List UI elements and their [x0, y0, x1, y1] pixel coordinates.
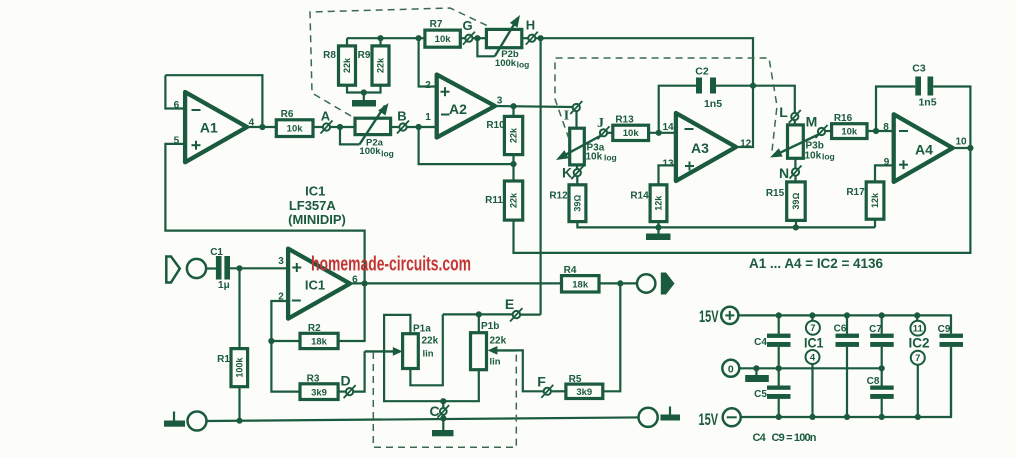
text 0 terminal	[722, 360, 739, 377]
text IC1 LF357A MINIDIP	[288, 184, 346, 228]
svg-text:1n5: 1n5	[704, 98, 722, 110]
wire R16 to A4 pin8	[867, 130, 894, 132]
svg-text:log: log	[604, 152, 617, 162]
supply bottom rail	[741, 347, 951, 417]
potentiometer P1a	[403, 324, 439, 369]
op-amp A4	[883, 114, 967, 182]
svg-text:100k: 100k	[234, 357, 244, 378]
potentiometer P2b	[486, 15, 529, 70]
junction dot right of G	[474, 35, 480, 41]
node J	[597, 116, 610, 139]
svg-text:log: log	[381, 149, 394, 159]
wire C to ground rail	[442, 415, 444, 419]
svg-text:(MINIDIP): (MINIDIP)	[288, 212, 346, 227]
IC2 supply pin 11	[910, 315, 925, 335]
wire input to C1	[206, 267, 216, 269]
capacitor C9	[938, 324, 963, 417]
node B	[397, 109, 409, 134]
node M	[806, 114, 828, 139]
wire R10 to R11	[512, 155, 514, 181]
junction dot C node	[440, 398, 446, 404]
wire P2b to H	[522, 37, 528, 39]
resistor R5	[566, 374, 603, 399]
svg-text:15V: 15V	[699, 410, 719, 429]
svg-text:1n5: 1n5	[918, 97, 936, 109]
wire R17 bottom to mid rail	[874, 219, 876, 227]
svg-text:C3: C3	[912, 63, 926, 75]
svg-text:12k: 12k	[654, 195, 664, 211]
wire L to P3b	[794, 120, 796, 125]
svg-text:C5: C5	[754, 389, 767, 400]
junction dot R8 R9 ground stub	[361, 89, 367, 95]
junction dot A3 feedback node	[750, 83, 756, 89]
svg-text:R13: R13	[615, 115, 634, 126]
wire A2 output to I	[495, 106, 573, 107]
svg-text:3k9: 3k9	[576, 387, 592, 398]
node N	[779, 165, 802, 181]
wire H junction long vertical down to E	[539, 38, 541, 315]
svg-text:10k: 10k	[623, 128, 640, 139]
output terminal circle	[637, 274, 655, 292]
svg-text:22k: 22k	[509, 192, 519, 208]
minus supply terminal	[723, 408, 741, 426]
svg-text:R5: R5	[569, 374, 582, 385]
wire P1b bottom loop to C node	[443, 370, 479, 402]
junction dot top rail at R9	[377, 35, 383, 41]
wire P1b wiper to F	[516, 350, 544, 391]
svg-text:R14: R14	[630, 191, 649, 202]
wire A3 output	[736, 86, 753, 147]
node K	[562, 165, 583, 181]
wire A1 pin6 stub	[165, 75, 185, 108]
svg-text:4: 4	[810, 353, 816, 364]
svg-text:R1: R1	[217, 354, 230, 365]
wire IC1 pin2 loop to R2 R3	[271, 301, 300, 392]
svg-text:L: L	[779, 104, 788, 120]
resistor R1	[217, 349, 247, 387]
svg-text:IC1: IC1	[305, 184, 325, 199]
svg-text:C1: C1	[210, 247, 223, 258]
wire P1b top stub	[478, 314, 480, 332]
wire P2b wiper bypass	[477, 38, 494, 56]
junction dot A4 output	[967, 145, 973, 151]
junction dot R4 right	[617, 280, 623, 286]
resistor R15	[766, 182, 805, 221]
wire R14 bottom to mid rail	[657, 222, 659, 228]
plus supply terminal	[721, 307, 738, 324]
svg-text:R17: R17	[846, 187, 865, 198]
node F	[537, 374, 553, 398]
ground symbol bottom right	[661, 407, 681, 421]
wire A2 pin2 to top rail	[419, 38, 437, 86]
svg-text:12k: 12k	[870, 192, 880, 208]
wire C4 to 0 rail	[778, 347, 780, 368]
wire R8 R9 bottoms joined	[347, 85, 381, 92]
dashed gang link P1a P1b	[373, 352, 516, 447]
potentiometer P3b	[770, 125, 835, 162]
capacitor C7	[869, 315, 894, 368]
junction dot left of P2a	[337, 124, 343, 130]
svg-text:R11: R11	[485, 195, 503, 206]
op-amp A1	[174, 92, 255, 162]
wire P2a wiper bypass	[340, 127, 360, 144]
wire J to R13	[607, 132, 613, 134]
wire P2a to B	[391, 126, 400, 128]
0 rail	[739, 367, 881, 369]
resistor R4	[562, 265, 600, 292]
wire R7 to G	[460, 37, 465, 39]
node C	[429, 401, 449, 419]
resistor R17	[846, 182, 884, 219]
svg-text:R7: R7	[430, 19, 443, 30]
wire P1a top loop to C node	[384, 315, 443, 401]
svg-text:39Ω: 39Ω	[791, 193, 801, 210]
node H	[526, 18, 538, 45]
resistor R16	[832, 113, 867, 139]
svg-text:R16: R16	[834, 113, 853, 124]
P1b wiper arrow	[488, 346, 516, 355]
svg-text:8: 8	[883, 122, 889, 133]
capacitor C5	[754, 368, 790, 417]
svg-text:10k: 10k	[287, 124, 304, 135]
wire R3 to D	[338, 391, 346, 393]
svg-text:100k: 100k	[495, 58, 517, 69]
capacitor C8	[867, 368, 894, 417]
svg-text:R8: R8	[323, 50, 336, 61]
supply top rail	[738, 315, 951, 333]
svg-text:C7: C7	[869, 324, 882, 335]
svg-text:10: 10	[955, 137, 967, 148]
dashed gang link P3a P3b	[555, 58, 777, 151]
wire A1 feedback top	[165, 75, 262, 127]
svg-text:C4: C4	[754, 337, 767, 348]
wire F to R5	[551, 390, 566, 392]
P1a wiper arrow	[365, 347, 403, 356]
svg-text:A3: A3	[691, 140, 709, 156]
svg-text:A1: A1	[200, 120, 218, 136]
svg-text:22k: 22k	[342, 57, 352, 73]
svg-text:7: 7	[810, 323, 815, 334]
input terminal circle	[187, 259, 206, 278]
wire A4 pin9 to R17	[875, 165, 894, 182]
wire B to A2 pin1	[407, 126, 437, 128]
resistor R14	[630, 185, 667, 222]
svg-text:homemade-circuits.com: homemade-circuits.com	[311, 254, 471, 276]
svg-text:A1 ... A4 = IC2 = 4136: A1 ... A4 = IC2 = 4136	[749, 256, 883, 271]
wire R5 right up to output wire	[603, 283, 621, 391]
junction dot 0 rail ground	[753, 365, 759, 371]
wire A3 pin13 to R14	[659, 165, 676, 184]
wire R13 to A3 pin14	[649, 132, 676, 134]
node E	[505, 296, 523, 322]
ground terminal circle bottom right	[639, 408, 658, 427]
junction dot R2 left	[268, 338, 274, 344]
svg-text:lin: lin	[423, 349, 434, 360]
wire D up to P1a wiper	[353, 351, 364, 391]
svg-text:3k9: 3k9	[311, 387, 327, 398]
IC1 supply pin 7	[806, 315, 820, 334]
op-amp A2	[425, 75, 503, 138]
wire A4 output	[953, 147, 971, 149]
resistor R11	[485, 181, 523, 220]
wire H to top rail right end	[535, 38, 753, 86]
wire to R2 left	[271, 340, 300, 342]
wire top rail R8 to R7	[347, 37, 425, 39]
svg-text:11: 11	[913, 324, 924, 335]
junction dot right of H	[538, 35, 544, 41]
wire R12 bottom to mid rail	[577, 222, 875, 228]
svg-text:R2: R2	[308, 323, 321, 334]
op-amp A3	[662, 113, 751, 181]
resistor R10	[486, 116, 522, 154]
node L	[779, 104, 801, 123]
svg-text:IC1: IC1	[804, 335, 824, 351]
junction dots top rail	[776, 312, 782, 318]
IC2 supply pin 7	[911, 351, 925, 417]
svg-text:C6: C6	[834, 324, 847, 335]
wire N to R15	[794, 176, 796, 182]
wire R15 bottom to mid rail	[795, 220, 797, 227]
svg-text:C8: C8	[867, 376, 880, 387]
svg-text:R15: R15	[766, 188, 785, 199]
ground below R8 R9	[352, 93, 376, 107]
ground symbol below C	[432, 418, 454, 436]
wire E to H vertical	[520, 314, 541, 316]
resistor R9	[358, 38, 389, 85]
wire R11 bottom to lower feedback rail to A4 output	[514, 148, 971, 253]
node G	[462, 18, 474, 45]
junction dot between R10 R11	[510, 161, 516, 167]
svg-text:J: J	[597, 116, 604, 131]
wire P1a bottom loop to E wire	[410, 314, 442, 385]
wire IC1 output to R4	[350, 282, 562, 284]
wire L branch from A3 output node	[753, 86, 795, 113]
svg-text:3: 3	[278, 256, 284, 267]
svg-text:15V: 15V	[699, 307, 719, 326]
svg-text:A4: A4	[915, 142, 933, 158]
svg-text:C9: C9	[938, 324, 951, 335]
resistor R7	[425, 19, 460, 47]
svg-text:P1a: P1a	[413, 324, 431, 335]
svg-text:22k: 22k	[422, 336, 439, 347]
junction dot mid rail R15	[793, 224, 799, 230]
junction dot ground rail at R1	[236, 418, 242, 424]
wire C3 right to A4 output	[933, 87, 970, 149]
resistor R6	[276, 109, 313, 137]
junction dot top rail at A2 pin2	[416, 35, 422, 41]
svg-text:18k: 18k	[311, 337, 328, 348]
output arrow solid	[661, 273, 675, 295]
svg-text:3: 3	[497, 96, 503, 107]
svg-text:R12: R12	[549, 191, 568, 202]
potentiometer P3a	[556, 128, 617, 165]
capacitor C2	[695, 66, 722, 111]
svg-text:I: I	[564, 109, 569, 124]
ground below A3	[646, 227, 671, 240]
junction dots bottom rail	[776, 414, 782, 420]
svg-text:LF357A: LF357A	[289, 198, 337, 213]
svg-text:R6: R6	[281, 109, 294, 120]
capacitor C1	[210, 247, 230, 291]
svg-text:14: 14	[662, 122, 674, 133]
resistor R8	[323, 38, 355, 85]
wire C2 left branch	[659, 86, 696, 133]
svg-text:22k: 22k	[490, 336, 507, 347]
junction dot IC1 output	[362, 280, 368, 286]
ground rail bottom	[206, 417, 638, 421]
svg-text:7: 7	[915, 353, 920, 364]
svg-text:10k: 10k	[435, 34, 452, 45]
svg-text:B: B	[397, 109, 406, 124]
node D	[340, 373, 355, 399]
junction dot A2 output	[510, 103, 516, 109]
junction dot P1b top	[476, 311, 482, 317]
wire R6 to A	[313, 126, 323, 128]
ground on 0 rail	[745, 368, 769, 382]
wire G to P2b	[473, 37, 487, 39]
svg-text:IC1: IC1	[305, 278, 325, 293]
svg-text:C4 C9 = 100n: C4 C9 = 100n	[753, 432, 817, 444]
svg-text:C2: C2	[695, 66, 709, 78]
wire B junction down to R10-R11 node	[419, 127, 514, 164]
svg-text:0: 0	[728, 363, 734, 375]
svg-text:P1b: P1b	[481, 321, 499, 332]
op-amp IC1	[278, 249, 358, 319]
dashed gang link P2a P2b	[310, 8, 488, 116]
svg-text:R9: R9	[358, 50, 371, 61]
svg-text:100k: 100k	[359, 146, 381, 157]
svg-text:H: H	[526, 18, 535, 33]
svg-text:N: N	[779, 165, 789, 181]
svg-text:1μ: 1μ	[218, 280, 230, 291]
wire A1 pin5 to IC1 output	[165, 144, 364, 284]
svg-text:22k: 22k	[376, 57, 386, 73]
svg-text:IC2: IC2	[909, 335, 930, 351]
svg-text:13: 13	[662, 159, 674, 170]
wire A2 output down to R10	[512, 106, 514, 116]
capacitor C4	[754, 315, 790, 348]
svg-text:10k: 10k	[805, 151, 822, 162]
junction dot R1 branch	[236, 265, 242, 271]
wire E horizontal	[443, 313, 513, 315]
wire M to R16	[825, 130, 832, 132]
IC1 supply pin 4	[806, 350, 820, 417]
svg-text:18k: 18k	[572, 279, 589, 290]
svg-text:1: 1	[425, 112, 431, 123]
svg-text:C: C	[429, 403, 439, 419]
svg-text:22k: 22k	[509, 127, 519, 143]
wire R2 right up to IC1 output	[338, 283, 365, 341]
svg-text:log: log	[822, 152, 835, 162]
node A	[321, 109, 333, 134]
junction dot C2 branch	[656, 130, 662, 136]
svg-text:R10: R10	[486, 120, 505, 131]
junction dot 0 rail C7 C8	[879, 365, 885, 371]
resistor R3	[300, 374, 338, 400]
wire R4 to output terminal	[599, 282, 637, 284]
svg-text:M: M	[806, 114, 818, 130]
ground terminal circle bottom left	[188, 412, 207, 431]
svg-text:lin: lin	[490, 357, 501, 368]
input jack arrow	[166, 257, 180, 283]
node I	[564, 101, 583, 124]
svg-text:A2: A2	[449, 101, 467, 117]
resistor R13	[613, 115, 649, 141]
wire R1 bottom to ground rail	[238, 387, 240, 421]
svg-text:K: K	[562, 165, 572, 181]
wire down to R1	[238, 268, 240, 348]
svg-text:39Ω: 39Ω	[572, 195, 582, 212]
potentiometer P2a	[355, 103, 394, 159]
svg-text:A: A	[321, 109, 331, 124]
svg-text:log: log	[517, 60, 530, 70]
svg-text:10k: 10k	[586, 152, 603, 163]
svg-text:10k: 10k	[841, 126, 858, 137]
node junction A1 output	[259, 124, 265, 130]
potentiometer P1b	[471, 321, 507, 370]
svg-text:F: F	[537, 374, 546, 390]
junction dot 0 rail C4 C5	[776, 365, 782, 371]
svg-text:E: E	[505, 296, 514, 312]
resistor R2	[300, 323, 338, 349]
junction dot right of B	[416, 124, 422, 130]
junction dot mid rail R14	[655, 224, 661, 230]
svg-text:R3: R3	[307, 374, 320, 385]
ground symbol bottom left	[164, 412, 185, 427]
resistor R12	[549, 185, 586, 222]
capacitor C3	[912, 63, 936, 109]
wire C3 left branch	[876, 87, 915, 132]
svg-text:D: D	[340, 373, 350, 389]
junction dot ground rail at C	[440, 415, 446, 421]
wire I to P3a top	[575, 111, 577, 128]
wire P3b bottom to N	[794, 158, 796, 168]
svg-text:G: G	[462, 18, 472, 33]
wire C2 right to A3 output node	[716, 85, 753, 87]
wire C1 to IC1 pin3	[230, 267, 288, 269]
wire A1 output	[247, 126, 276, 128]
svg-text:R4: R4	[564, 265, 577, 276]
capacitor C6	[834, 315, 859, 416]
wire P3a bottom to K	[576, 165, 578, 169]
junction dot C3 branch	[873, 128, 879, 134]
wire K to R12	[576, 176, 578, 185]
wire A to P2a	[330, 126, 355, 128]
